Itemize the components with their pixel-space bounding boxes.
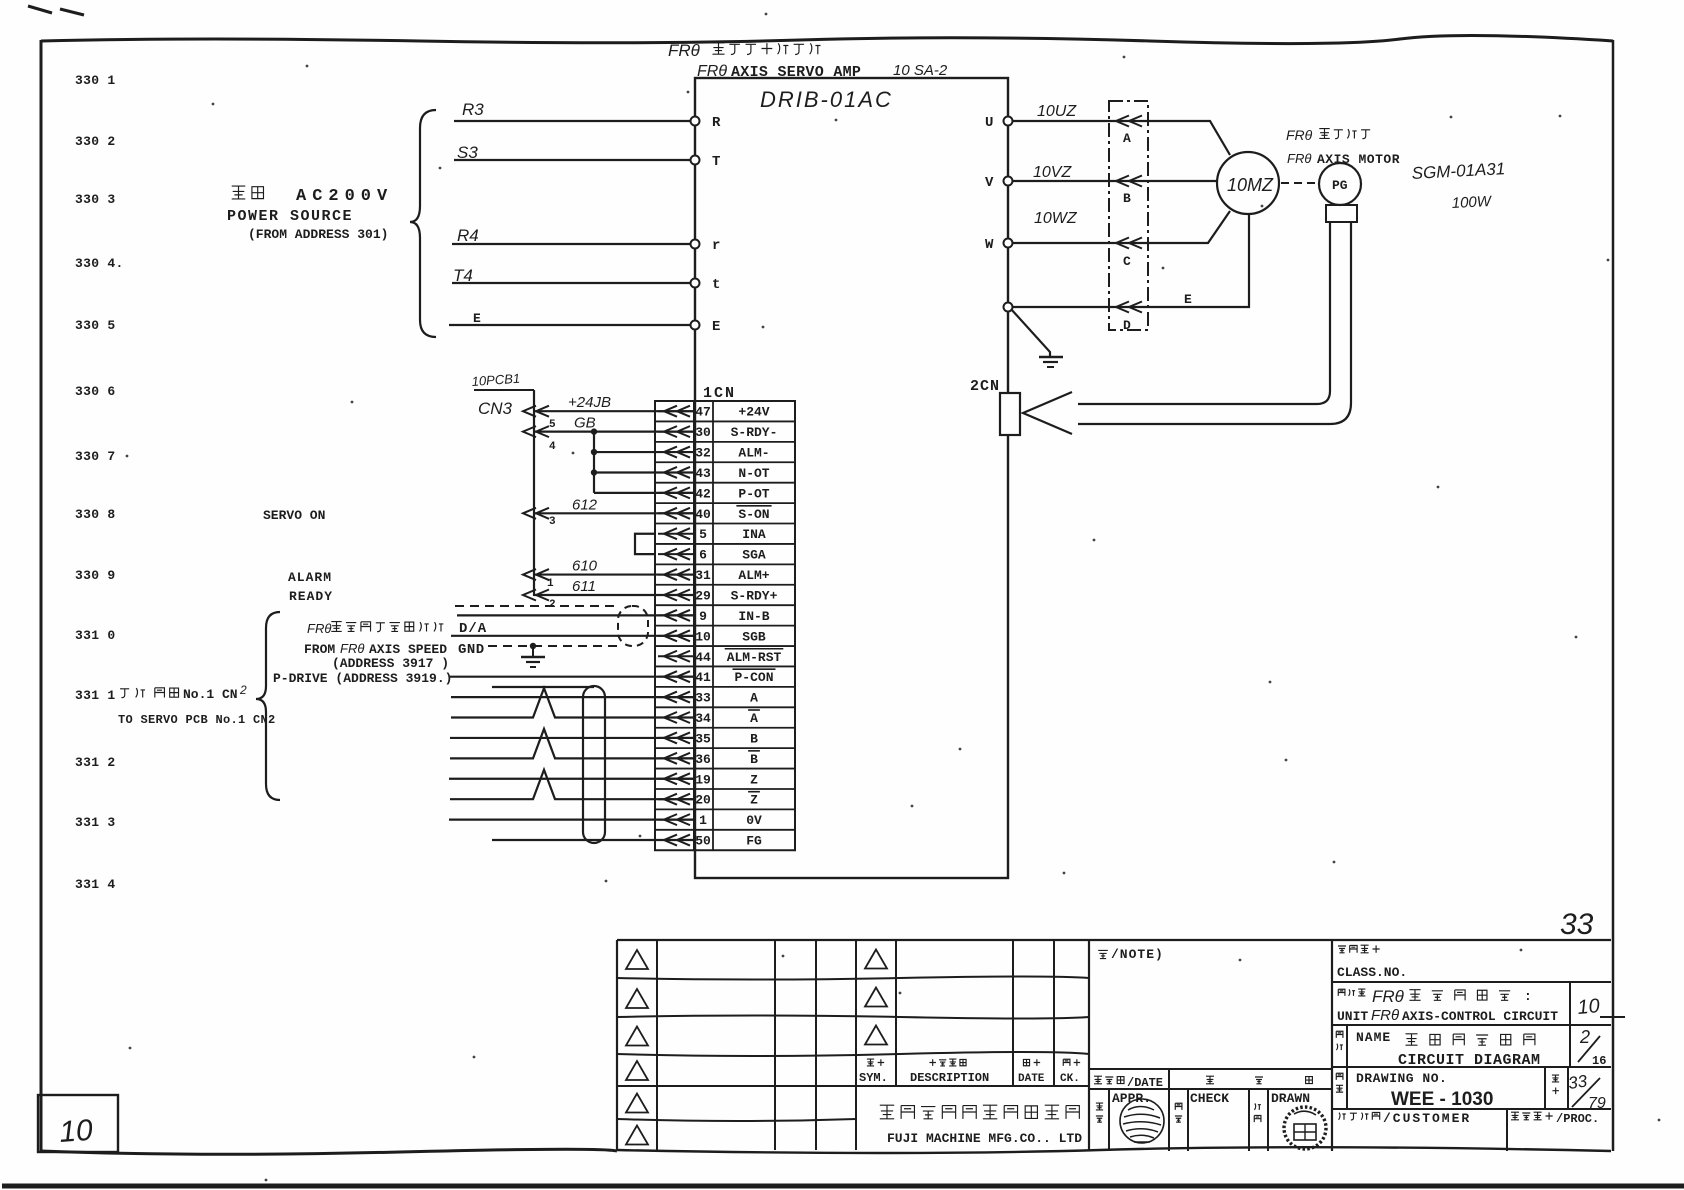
svg-text:AC200V: AC200V — [296, 187, 393, 206]
svg-text:E: E — [712, 319, 720, 335]
svg-text:C: C — [1123, 254, 1131, 269]
wire pair B to pin 35 — [450, 737, 694, 739]
wire 0V to pin 1 — [449, 819, 694, 821]
svg-text:40: 40 — [695, 507, 711, 522]
svg-text:(ADDRESS 3917 ): (ADDRESS 3917 ) — [332, 656, 449, 671]
junction dots — [591, 428, 597, 434]
wire V phase 10VZ — [1013, 180, 1218, 182]
1CN pin 9 IN-B row — [658, 609, 770, 624]
company name Fuji Machine (Japanese) — [880, 1105, 1080, 1119]
svg-text:D/A: D/A — [459, 621, 487, 637]
svg-text:19: 19 — [695, 772, 711, 787]
branch wire to pin 32 — [594, 451, 694, 453]
svg-text:/NOTE): /NOTE) — [1111, 947, 1164, 962]
svg-text:ALM-: ALM- — [738, 446, 769, 461]
CN3 bus vertical wire — [533, 390, 535, 596]
svg-text:TO SERVO PCB No.1 CN2: TO SERVO PCB No.1 CN2 — [118, 713, 276, 727]
svg-text:P-OT: P-OT — [738, 486, 769, 501]
bottom heavy scan line — [2, 1184, 1684, 1189]
brace for servo pcb CN2 group — [256, 612, 280, 800]
svg-text:330 4.: 330 4. — [75, 256, 124, 271]
svg-text:E: E — [473, 311, 481, 326]
svg-text:READY: READY — [289, 589, 333, 604]
cable arrow — [1116, 116, 1129, 127]
dashed shaft motor to PG — [1281, 182, 1318, 184]
svg-text:S-ON: S-ON — [738, 507, 769, 522]
1CN pin 44 ALM-RST row — [658, 649, 783, 665]
1CN pin 36 B row — [658, 751, 760, 767]
svg-text:5: 5 — [699, 527, 707, 542]
label FR0 axis speed from (Japanese) — [307, 621, 331, 636]
svg-text:SGM-01A31: SGM-01A31 — [1411, 159, 1505, 183]
vertical label APPR (Japanese) — [1096, 1103, 1103, 1122]
wire S3 to terminal T — [454, 159, 690, 161]
svg-text:330 3: 330 3 — [75, 192, 116, 207]
PG base rectangle — [1326, 205, 1357, 222]
branch vertical wire — [593, 432, 595, 493]
sheet number 10 box bottom-left — [38, 1095, 118, 1152]
svg-text:R4: R4 — [457, 226, 479, 245]
svg-text:30: 30 — [695, 425, 711, 440]
svg-text:10: 10 — [1577, 995, 1601, 1019]
svg-text:U: U — [985, 115, 993, 131]
svg-text:1CN: 1CN — [703, 385, 736, 402]
svg-text:B: B — [750, 731, 758, 746]
svg-text:AXIS MOTOR: AXIS MOTOR — [1317, 152, 1400, 167]
svg-text:UNIT: UNIT — [1337, 1009, 1368, 1024]
svg-text:SGB: SGB — [742, 629, 766, 644]
encoder PG circle — [1319, 163, 1361, 205]
terminal t circle — [691, 279, 700, 288]
scan artifact marks top-left — [28, 6, 84, 15]
cable arrow — [1116, 302, 1129, 313]
jumper INA-SGA — [635, 534, 655, 554]
svg-text:44: 44 — [695, 650, 711, 665]
svg-text:(FROM ADDRESS 301): (FROM ADDRESS 301) — [248, 227, 388, 242]
unit name row — [1337, 987, 1558, 1024]
wire E motor ground — [1013, 214, 1249, 307]
svg-text:S-RDY+: S-RDY+ — [731, 588, 778, 603]
svg-text:A: A — [1123, 131, 1131, 146]
svg-text:330 1: 330 1 — [75, 73, 116, 88]
1CN pin 10 SGB row — [658, 629, 766, 644]
svg-text:SGA: SGA — [742, 548, 766, 563]
svg-text:CLASS.NO.: CLASS.NO. — [1337, 965, 1407, 980]
svg-text:CK.: CK. — [1060, 1073, 1080, 1085]
svg-text:FUJI MACHINE MFG.CO.. LTD: FUJI MACHINE MFG.CO.. LTD — [887, 1131, 1082, 1146]
svg-text:331 3: 331 3 — [75, 815, 116, 830]
vertical label CHECK (Japanese) — [1175, 1103, 1182, 1122]
name row circuit diagram — [1336, 1030, 1540, 1069]
svg-text:WEE - 1030: WEE - 1030 — [1391, 1089, 1493, 1110]
svg-text:AXIS-CONTROL CIRCUIT: AXIS-CONTROL CIRCUIT — [1402, 1009, 1558, 1024]
svg-text:330 7: 330 7 — [75, 449, 116, 464]
wire 611 to pin 29 — [534, 594, 694, 596]
terminal E circle — [691, 321, 700, 330]
svg-text:612: 612 — [572, 496, 598, 513]
wire pair /B to pin 36 with twist — [450, 729, 694, 758]
svg-text:79: 79 — [1588, 1095, 1606, 1112]
svg-text:FRθ: FRθ — [340, 641, 364, 656]
svg-text:20: 20 — [695, 793, 711, 808]
svg-text:FRθ: FRθ — [307, 621, 331, 636]
1CN pin 20 Z row — [658, 792, 760, 808]
svg-text:1: 1 — [699, 813, 707, 828]
svg-text:ALARM: ALARM — [288, 570, 332, 585]
wire R4 to terminal r — [452, 243, 690, 245]
svg-text:611: 611 — [572, 578, 596, 595]
wire pair /Z to pin 20 with twist — [450, 770, 694, 799]
drawing no row — [1336, 1071, 1559, 1110]
svg-text:/CUSTOMER: /CUSTOMER — [1383, 1111, 1471, 1126]
1CN pin 33 A row — [658, 691, 758, 706]
wire U phase 10UZ — [1013, 121, 1230, 155]
PG cable to 2CN — [1078, 222, 1330, 404]
svg-text:2: 2 — [1579, 1027, 1590, 1047]
terminal R circle — [691, 117, 700, 126]
terminal T circle — [691, 156, 700, 165]
svg-text:AXIS SERVO AMP: AXIS SERVO AMP — [731, 64, 861, 81]
svg-text:330 6: 330 6 — [75, 384, 116, 399]
wire R3 to terminal R — [454, 120, 690, 122]
1CN pin 40 S-ON row — [658, 506, 772, 522]
svg-text:10WZ: 10WZ — [1034, 210, 1078, 227]
1CN pin 30 S-RDY- row — [658, 425, 777, 440]
svg-text:FRθ: FRθ — [1372, 987, 1405, 1006]
connector 2CN box — [1000, 393, 1020, 435]
svg-text:+24JB: +24JB — [568, 394, 611, 411]
svg-text:R: R — [712, 115, 721, 131]
svg-text:PG: PG — [1332, 178, 1348, 193]
page frame border — [41, 35, 1613, 43]
svg-text:INA: INA — [742, 527, 766, 542]
svg-text::: : — [1524, 989, 1532, 1004]
svg-text:9: 9 — [699, 609, 707, 624]
svg-text:331 2: 331 2 — [75, 755, 116, 770]
1CN pin 35 B row — [658, 731, 758, 746]
svg-text:A: A — [750, 711, 758, 726]
svg-text:No.1 CN: No.1 CN — [183, 687, 238, 702]
terminal U circle — [1004, 117, 1013, 126]
svg-text:P-DRIVE (ADDRESS 3919.): P-DRIVE (ADDRESS 3919.) — [273, 671, 452, 686]
approval stamp — [1120, 1099, 1164, 1143]
revision table grid — [617, 940, 1089, 1151]
svg-text:B: B — [1123, 191, 1131, 206]
title block bottom edge — [617, 1147, 1611, 1153]
address column labels 3301-3314 — [75, 73, 124, 892]
svg-text:330 8: 330 8 — [75, 507, 116, 522]
wire W phase 10WZ — [1013, 211, 1230, 243]
svg-text:FRθ: FRθ — [1286, 127, 1313, 143]
terminal r circle — [691, 240, 700, 249]
motor cable connector dashed box A-D — [1109, 101, 1148, 330]
connector 1CN pin table grid — [655, 401, 795, 850]
svg-text:t: t — [712, 277, 720, 293]
wire pair A to pin 33 — [451, 696, 694, 698]
1CN pin 29 S-RDY+ row — [658, 588, 778, 603]
row dividers right block — [1332, 982, 1611, 1151]
svg-text:33: 33 — [695, 691, 711, 706]
1CN pin 32 ALM- row — [658, 446, 770, 461]
svg-text:FRθ: FRθ — [1371, 1007, 1399, 1024]
encoder cable shield capsule — [583, 686, 605, 843]
svg-text:AXIS SPEED: AXIS SPEED — [369, 642, 447, 657]
svg-text:CN3: CN3 — [478, 399, 513, 418]
svg-text:/PROC.: /PROC. — [1556, 1112, 1599, 1126]
wire pair /A to pin 34 with twist — [451, 688, 694, 717]
svg-text:10: 10 — [695, 629, 711, 644]
svg-text:1: 1 — [547, 578, 554, 590]
svg-text:330 5: 330 5 — [75, 318, 116, 333]
page fraction 2/16 — [1578, 1027, 1606, 1068]
1CN pin 31 ALM+ row — [658, 568, 770, 583]
cable arrow — [1116, 176, 1129, 187]
1CN pin 42 P-OT row — [658, 486, 770, 501]
svg-text:S3: S3 — [457, 143, 478, 162]
svg-text:FRθ: FRθ — [668, 41, 701, 60]
svg-text:DESCRIPTION: DESCRIPTION — [910, 1071, 989, 1085]
svg-text:36: 36 — [695, 752, 711, 767]
svg-text:CHECK: CHECK — [1190, 1091, 1229, 1106]
branch wire to pin 43 — [594, 471, 694, 473]
svg-text:31: 31 — [695, 568, 711, 583]
label servo pcb No.1 CN2 (Japanese) — [120, 688, 145, 698]
wire D/A to pin 9 — [457, 614, 694, 616]
svg-text:2CN: 2CN — [970, 378, 1000, 395]
1CN pin 5 INA row — [658, 527, 766, 542]
svg-text:FRθ: FRθ — [697, 63, 727, 80]
svg-text:W: W — [985, 237, 994, 253]
svg-text:33: 33 — [1560, 908, 1594, 941]
svg-text:2: 2 — [239, 683, 247, 697]
svg-text:DRAWN: DRAWN — [1271, 1091, 1310, 1106]
svg-text:T: T — [712, 154, 720, 170]
svg-text:FROM: FROM — [304, 642, 335, 657]
svg-text:331 1: 331 1 — [75, 688, 116, 703]
svg-text:10VZ: 10VZ — [1033, 164, 1072, 181]
shield dashed outline for D/A pair — [455, 606, 648, 646]
1CN pin 50 FG row — [658, 834, 762, 849]
svg-text:E: E — [1184, 292, 1192, 307]
svg-text:6: 6 — [699, 548, 707, 563]
svg-text:610: 610 — [572, 558, 598, 575]
svg-text:330 2: 330 2 — [75, 134, 116, 149]
wire +24JB to pin 47 — [534, 410, 694, 412]
svg-text:FRθ: FRθ — [1287, 151, 1311, 166]
svg-text:47: 47 — [695, 405, 711, 420]
svg-text:DATE: DATE — [1018, 1073, 1045, 1085]
svg-text:330 9: 330 9 — [75, 568, 116, 583]
svg-text:IN-B: IN-B — [738, 609, 769, 624]
revision triangles column 1 — [626, 950, 648, 1145]
svg-text:SYM.: SYM. — [859, 1071, 888, 1085]
svg-text:10UZ: 10UZ — [1037, 103, 1077, 120]
svg-text:NAME: NAME — [1356, 1030, 1391, 1045]
1CN pin 34 A row — [658, 710, 760, 726]
cable arrow — [1116, 238, 1129, 249]
wire E to terminal E — [449, 324, 690, 326]
svg-text:5: 5 — [549, 419, 556, 431]
svg-text:331 0: 331 0 — [75, 628, 116, 643]
svg-text:50: 50 — [695, 834, 711, 849]
svg-text:10MZ: 10MZ — [1227, 175, 1274, 195]
drawn stamp — [1284, 1107, 1326, 1149]
branch wire to pin 42 — [594, 492, 694, 494]
svg-text:CIRCUIT DIAGRAM: CIRCUIT DIAGRAM — [1398, 1052, 1541, 1069]
svg-text:R3: R3 — [462, 100, 484, 119]
svg-text:10PCB1: 10PCB1 — [471, 371, 520, 389]
ground symbol for shield — [521, 646, 545, 667]
svg-text:16: 16 — [1592, 1054, 1606, 1068]
note box label — [1098, 947, 1164, 962]
wire pair Z to pin 19 — [449, 778, 694, 780]
svg-text:3: 3 — [549, 516, 556, 528]
wire T4 to terminal t — [452, 282, 690, 284]
svg-text:100W: 100W — [1451, 193, 1493, 212]
terminal E-gnd circle — [1004, 303, 1013, 312]
svg-text:Z: Z — [750, 772, 758, 787]
svg-text:ALM+: ALM+ — [738, 568, 769, 583]
svg-text:34: 34 — [695, 711, 711, 726]
svg-text:P-CON: P-CON — [734, 670, 773, 685]
svg-text:T4: T4 — [453, 266, 473, 285]
svg-text:43: 43 — [695, 466, 711, 481]
svg-text:0V: 0V — [746, 813, 762, 828]
1CN pin 6 SGA row — [658, 548, 766, 563]
svg-text:29: 29 — [695, 588, 711, 603]
1CN pin 19 Z row — [658, 772, 758, 787]
wire to pin 10 SGB — [451, 635, 694, 637]
svg-text:42: 42 — [695, 486, 711, 501]
svg-text:D: D — [1123, 318, 1131, 333]
1CN pin 1 0V row — [658, 813, 762, 828]
servo amp DRIB-01AC outline box — [695, 78, 1008, 878]
class no row — [1337, 945, 1407, 980]
svg-text:S-RDY-: S-RDY- — [731, 425, 778, 440]
sheet fraction 33/79 — [1567, 1071, 1606, 1112]
1CN pin 43 N-OT row — [658, 466, 770, 481]
svg-text:Z: Z — [750, 793, 758, 808]
svg-text:10: 10 — [58, 1114, 94, 1149]
svg-text:POWER SOURCE: POWER SOURCE — [227, 208, 353, 225]
svg-text:SERVO ON: SERVO ON — [263, 508, 325, 523]
svg-text:331 4: 331 4 — [75, 877, 116, 892]
svg-text:N-OT: N-OT — [738, 466, 769, 481]
svg-text:32: 32 — [695, 446, 711, 461]
date header labels — [1094, 1076, 1312, 1090]
1CN pin 47 +24V row — [658, 405, 770, 420]
connector CN3 label and bracket — [474, 389, 534, 391]
GND junction dot — [530, 643, 536, 649]
svg-text:/DATE: /DATE — [1127, 1076, 1163, 1090]
wire P-DRIVE to pin 41 — [450, 676, 694, 678]
title block top edge — [617, 939, 1611, 941]
svg-text:41: 41 — [695, 670, 711, 685]
wire FG to pin 50 — [492, 839, 694, 841]
revision triangles column 2 — [865, 950, 887, 1045]
svg-text:10 SA-2: 10 SA-2 — [893, 62, 948, 79]
wire GB to pin 30 — [534, 431, 694, 433]
svg-text:FG: FG — [746, 834, 762, 849]
svg-text:35: 35 — [695, 731, 711, 746]
revision header SYM DESCRIPTION DATE CK — [859, 1059, 1080, 1085]
2CN cable arrow — [1023, 392, 1072, 434]
terminal W circle — [1004, 239, 1013, 248]
1CN pin 41 P-CON row — [658, 669, 776, 685]
ground symbol at E terminal — [1011, 309, 1063, 367]
svg-text:+24V: +24V — [738, 405, 769, 420]
svg-text:DRAWING NO.: DRAWING NO. — [1356, 1071, 1447, 1086]
svg-text:4: 4 — [549, 441, 556, 453]
svg-text:r: r — [712, 238, 720, 254]
wire 612 to pin 40 — [534, 512, 694, 514]
motor circle 10MZ — [1217, 152, 1279, 214]
svg-text:V: V — [985, 175, 994, 191]
svg-text:ALM-RST: ALM-RST — [727, 650, 782, 665]
customer row — [1339, 1111, 1600, 1126]
date table grid — [1089, 940, 1332, 1151]
terminal V circle — [1004, 177, 1013, 186]
svg-text:A: A — [750, 691, 758, 706]
shield drain wire top — [492, 686, 594, 688]
vertical label DRAWN (Japanese) — [1254, 1103, 1261, 1122]
brace for power source group — [410, 110, 436, 337]
svg-text:DRIB-01AC: DRIB-01AC — [760, 87, 893, 112]
svg-text:GND: GND — [458, 642, 485, 658]
svg-text:B: B — [750, 752, 758, 767]
label power source AC200V — [232, 186, 264, 199]
wire 610 to pin 31 — [534, 573, 694, 575]
svg-text:33: 33 — [1567, 1071, 1589, 1093]
